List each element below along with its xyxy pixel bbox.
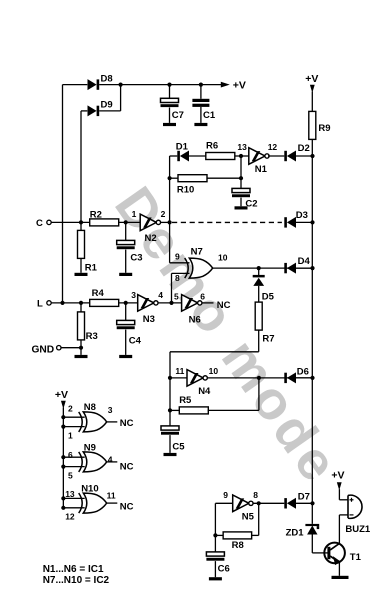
svg-text:D3: D3: [296, 210, 308, 221]
svg-text:N1: N1: [255, 164, 268, 175]
svg-text:8: 8: [253, 490, 258, 500]
svg-text:NC: NC: [120, 501, 134, 512]
svg-text:D5: D5: [262, 292, 275, 303]
svg-text:+V: +V: [305, 73, 318, 85]
svg-text:NC: NC: [120, 418, 134, 429]
svg-text:1: 1: [68, 430, 73, 440]
svg-text:2: 2: [161, 209, 166, 219]
svg-text:R4: R4: [92, 288, 105, 299]
svg-text:N4: N4: [198, 386, 211, 397]
svg-text:3: 3: [108, 405, 113, 415]
svg-text:6: 6: [200, 292, 205, 302]
svg-text:9: 9: [223, 490, 228, 500]
svg-text:4: 4: [108, 454, 113, 464]
svg-text:D7: D7: [298, 492, 310, 503]
svg-text:N9: N9: [84, 442, 96, 453]
svg-text:N8: N8: [84, 402, 96, 413]
svg-text:10: 10: [209, 366, 219, 376]
svg-text:12: 12: [65, 512, 75, 522]
svg-text:D1: D1: [176, 142, 189, 153]
svg-text:R5: R5: [179, 395, 192, 406]
svg-text:L: L: [37, 299, 43, 310]
svg-text:C2: C2: [245, 199, 257, 210]
svg-text:C6: C6: [218, 564, 230, 575]
svg-text:N7: N7: [191, 247, 203, 258]
svg-text:N1...N6 = IC1: N1...N6 = IC1: [43, 564, 104, 575]
svg-text:2: 2: [68, 404, 73, 414]
svg-text:11: 11: [107, 490, 116, 500]
svg-text:C4: C4: [129, 336, 142, 347]
svg-text:R3: R3: [86, 331, 98, 342]
svg-text:9: 9: [175, 251, 180, 261]
svg-text:N5: N5: [242, 512, 255, 523]
svg-text:D4: D4: [298, 256, 311, 267]
svg-text:10: 10: [218, 253, 228, 263]
svg-text:+V: +V: [233, 80, 246, 92]
svg-text:BUZ1: BUZ1: [345, 524, 371, 535]
svg-text:N10: N10: [81, 484, 98, 495]
svg-text:5: 5: [174, 292, 179, 302]
svg-text:R7: R7: [262, 334, 274, 345]
svg-text:R9: R9: [318, 123, 330, 134]
svg-text:R8: R8: [232, 540, 244, 551]
svg-text:+V: +V: [331, 470, 344, 482]
svg-text:ZD1: ZD1: [286, 528, 305, 539]
svg-text:13: 13: [65, 489, 75, 499]
svg-text:1: 1: [132, 209, 137, 219]
svg-text:R1: R1: [85, 262, 98, 273]
svg-text:13: 13: [237, 142, 247, 152]
svg-text:C: C: [36, 218, 43, 229]
svg-text:N7...N10 = IC2: N7...N10 = IC2: [43, 575, 110, 586]
svg-text:4: 4: [158, 290, 163, 300]
svg-text:NC: NC: [217, 300, 231, 311]
svg-text:GND: GND: [32, 344, 55, 355]
svg-text:R6: R6: [206, 141, 218, 152]
svg-text:N6: N6: [189, 315, 201, 326]
svg-text:D2: D2: [298, 143, 310, 154]
svg-text:N3: N3: [143, 314, 155, 325]
svg-text:+V: +V: [55, 389, 68, 401]
svg-text:C5: C5: [172, 442, 185, 453]
svg-text:8: 8: [175, 273, 180, 283]
svg-text:D9: D9: [101, 100, 113, 111]
svg-text:12: 12: [268, 142, 278, 152]
svg-text:T1: T1: [350, 552, 362, 563]
svg-text:NC: NC: [120, 462, 134, 473]
svg-text:3: 3: [131, 290, 136, 300]
svg-text:11: 11: [175, 366, 184, 376]
svg-text:R10: R10: [177, 184, 194, 195]
svg-text:5: 5: [68, 470, 73, 480]
svg-text:N2: N2: [145, 233, 157, 244]
svg-text:R2: R2: [90, 209, 102, 220]
svg-text:C3: C3: [130, 253, 142, 264]
svg-text:6: 6: [68, 450, 73, 460]
svg-text:D8: D8: [101, 74, 113, 85]
svg-text:C7: C7: [172, 110, 184, 121]
svg-text:D6: D6: [297, 366, 309, 377]
svg-text:C1: C1: [203, 110, 216, 121]
